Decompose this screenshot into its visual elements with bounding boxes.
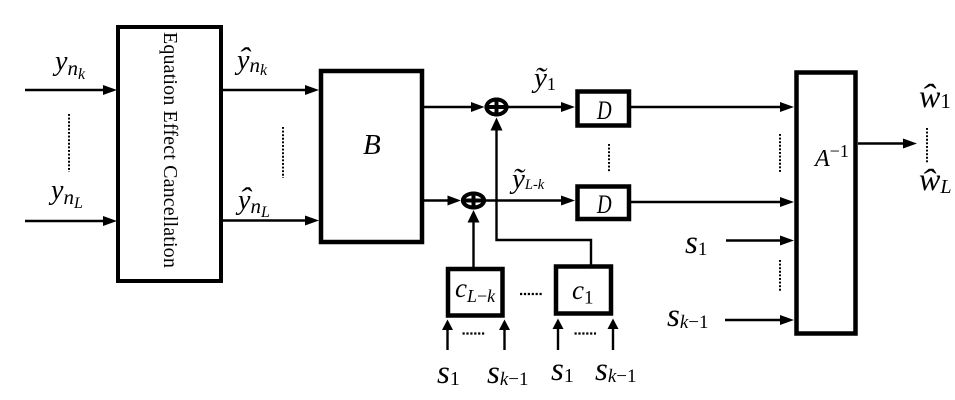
wire: D2 out to A inverse (630, 201, 781, 203)
wire: s_k-1 into A inverse (725, 319, 781, 321)
label ytilde_L-k (512, 165, 544, 194)
dotted separator between D1 and D2 (608, 144, 610, 172)
label s_k-1 under c_L-k (487, 357, 529, 390)
wire: input y_nk to EEC (25, 89, 104, 91)
wire: s_k-1 up into c_1 (612, 328, 614, 350)
dotted separator left of A inverse upper (779, 134, 781, 172)
block c_L-k (448, 269, 503, 316)
dotted separator between y_nk and y_nL inputs (68, 114, 70, 172)
block D2 (578, 187, 630, 220)
wire: EEC out yhat_nk to B (223, 89, 306, 91)
wire: s_1 up into c_L-k (446, 329, 448, 350)
block D1 (578, 92, 630, 126)
label ytilde_1 (534, 64, 556, 93)
dots under c_L-k (463, 332, 485, 334)
label yhat_nk (237, 47, 267, 79)
label c_1 (572, 277, 593, 308)
label: Equation Effect Cancellation (vertical text) (118, 27, 221, 281)
wire: s_1 into A inverse (726, 239, 781, 241)
label what_1 (919, 80, 951, 112)
label y_nL (51, 177, 83, 212)
wire: A inverse output w (858, 142, 904, 144)
wire: B bottom out to adder X2 (424, 199, 448, 201)
wire: c_L-k up to adder X2 (472, 222, 474, 268)
wire: D1 out to A inverse (630, 106, 781, 108)
label A^-1 (815, 142, 849, 171)
wire: s_k-1 up into c_L-k (503, 329, 505, 350)
dots under c_1 (575, 332, 597, 334)
wire: adder X1 to D1 (509, 106, 563, 108)
wire: B top out to adder X1 (424, 106, 472, 108)
label D2 (597, 192, 612, 218)
label c_L-k (455, 275, 495, 305)
label D1 (597, 98, 612, 124)
wire: s_1 up into c_1 (557, 328, 559, 350)
block: Equation Effect Cancellation (118, 27, 221, 281)
label y_nk (55, 48, 85, 83)
wire: EEC out yhat_nL to B (223, 219, 306, 221)
label s_1 into A inverse (685, 227, 707, 260)
adder X2 (circled plus) (461, 192, 486, 210)
label s_1 under c_L-k (437, 357, 460, 390)
label what_L (919, 163, 951, 197)
block B (321, 71, 422, 242)
label yhat_nL (238, 187, 270, 221)
label s_k-1 under c_1 (595, 354, 637, 387)
wire: adder X2 to D2 (486, 199, 562, 201)
dots between c_L-k and c_1 (520, 293, 542, 295)
label s_k-1 into A inverse (667, 300, 709, 333)
block c_1 (556, 267, 611, 314)
wire: input y_nL to EEC (25, 220, 104, 222)
wire: c_1 up and over to adder X1 (497, 129, 592, 266)
adder X1 (circled plus) (485, 98, 509, 117)
dotted separator left of A inverse lower (779, 260, 781, 292)
label B (363, 131, 381, 160)
block A inverse (797, 73, 856, 334)
dotted separator between yhat outputs (282, 127, 284, 178)
label s_1 under c_1 (551, 354, 574, 387)
dotted separator between w_1 and w_L outputs (926, 128, 928, 163)
